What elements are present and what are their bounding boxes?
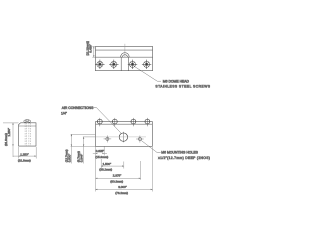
svg-text:2.375”: 2.375” [113, 174, 122, 178]
screw S1 (M6 dome head, front) [95, 60, 104, 69]
dim 0.625 (below plan, small) [93, 146, 107, 191]
hidden hole lines (dashed) [25, 123, 30, 146]
wire: elevation step line [95, 56, 152, 58]
side step line [19, 125, 37, 127]
svg-text:(8.7mm): (8.7mm) [76, 151, 80, 162]
svg-text:(31.8mm): (31.8mm) [18, 159, 31, 163]
dim 2.375 (60.3mm) [96, 161, 141, 180]
ext: plan bottom edge extended left [71, 145, 96, 147]
dim 1.250 side bottom [13, 147, 36, 159]
label: M6 MOUNTING HOLES / x1/2"(12.7mm) DEEP (2NOS) [158, 151, 210, 160]
mounting hole MH2 [136, 136, 144, 143]
wire: plan second edge line [96, 123, 153, 125]
svg-text:(38.1mm): (38.1mm) [99, 168, 112, 172]
top screw (side) [24, 120, 31, 123]
dim 3.000 (76.2mm) [96, 147, 153, 192]
svg-text:M6 DOME HEAD: M6 DOME HEAD [163, 79, 190, 83]
mounting hole MH1 [104, 135, 112, 142]
ext line A (upper left, to dim V1) [71, 133, 96, 135]
dim V1 (left vertical dim 1) [70, 134, 72, 163]
dim 1.500 (38.1mm) [101, 159, 124, 169]
side view body [19, 123, 37, 146]
svg-text:(15.9mm): (15.9mm) [95, 155, 108, 159]
outlet hole (big circle, plan) [119, 132, 127, 143]
air port P4 [145, 118, 150, 126]
svg-text:M6 MOUNTING HOLES: M6 MOUNTING HOLES [161, 151, 198, 155]
svg-text:(31.8mm): (31.8mm) [4, 133, 8, 146]
centre outlet boss (elevation) [121, 53, 130, 71]
label: AIR CONNECTIONS / 1/4" [61, 106, 94, 116]
svg-text:3.000”: 3.000” [118, 185, 127, 189]
ext line B (to dim V2) [83, 136, 96, 138]
leader: air connections [94, 107, 122, 133]
svg-text:1/4”: 1/4” [61, 112, 67, 116]
svg-text:0.625”: 0.625” [96, 149, 105, 153]
leader: M6 dome head screws [134, 66, 161, 81]
holes centreline [96, 136, 147, 138]
dim text 0.438" [11.1mm] (rotated) [86, 41, 93, 55]
centerline of boss [124, 44, 126, 58]
dim 1.250 side left [3, 123, 19, 157]
svg-text:AIR CONNECTIONS: AIR CONNECTIONS [62, 106, 94, 110]
manifold body outline (plan) [96, 122, 153, 147]
manifold body outline (front elevation) [95, 47, 152, 71]
air port P1 [97, 118, 102, 126]
svg-text:1.500”: 1.500” [103, 162, 112, 166]
air port P3 [131, 118, 136, 126]
screw S4 [142, 60, 151, 69]
screw S3 [128, 60, 137, 69]
svg-text:x1/2”(12.7mm) DEEP (2NOS): x1/2”(12.7mm) DEEP (2NOS) [158, 156, 210, 160]
dim 0.438 ext lines (elevation left) [92, 47, 95, 58]
leader: M6 mounting holes [141, 140, 161, 152]
wire: elevation upper face line [95, 49, 152, 51]
svg-text:(76.2mm): (76.2mm) [115, 191, 128, 195]
label: M6 DOME HEAD / STAINLESS STEEL SCREWS [155, 79, 210, 88]
svg-text:STAINLESS STEEL SCREWS: STAINLESS STEEL SCREWS [155, 85, 210, 89]
air port P2 [112, 118, 117, 126]
svg-text:1.250”: 1.250” [20, 152, 29, 156]
dim V2 (left vertical dim 2) [83, 137, 85, 164]
screw S2 [109, 60, 118, 69]
svg-text:[11.1(mm)]: [11.1(mm)] [86, 41, 90, 55]
svg-text:(12.7mm): (12.7mm) [64, 149, 68, 162]
svg-text:(60.3mm): (60.3mm) [110, 179, 123, 183]
